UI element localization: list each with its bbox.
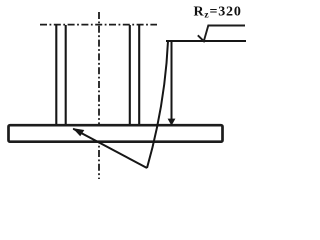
left pin line 2	[65, 25, 67, 126]
right pin line 1	[129, 25, 131, 126]
svg-text:Rz=320: Rz=320	[194, 5, 242, 21]
leader shallow segment with arrowhead at plate top surface	[73, 129, 147, 168]
vertical dash-dot centerline	[98, 12, 100, 179]
bar (plate)	[9, 125, 223, 142]
steep leader segment	[147, 41, 168, 168]
surface roughness check symbol	[198, 26, 245, 42]
left pin line 1	[55, 25, 57, 126]
horizontal leader line to roughness symbol	[166, 40, 246, 42]
horizontal dash-dot axis line	[40, 24, 157, 26]
right pin line 2	[138, 25, 140, 126]
vertical arrow pointing down at plate top	[171, 41, 173, 120]
arrowhead (up-left)	[73, 128, 85, 136]
